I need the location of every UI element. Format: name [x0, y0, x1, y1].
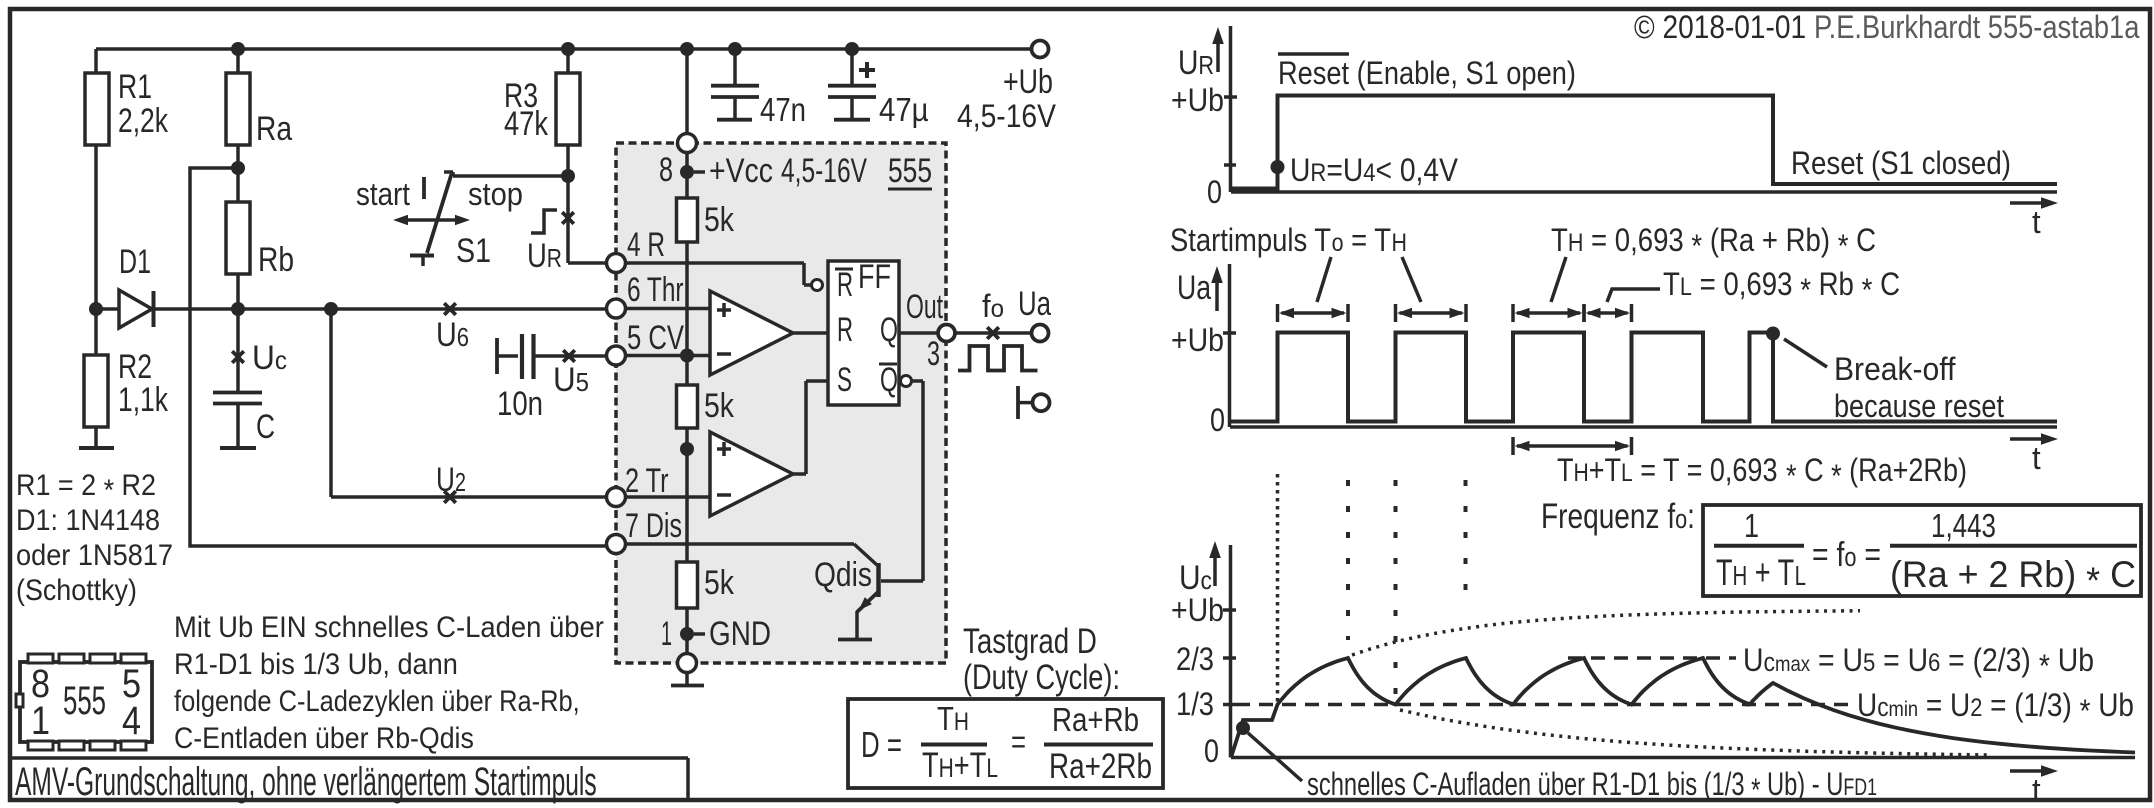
svg-text:2/3: 2/3	[1176, 642, 1214, 677]
svg-text:0: 0	[1207, 175, 1222, 211]
svg-text:TH = 0,693 * (Ra + Rb) * C: TH = 0,693 * (Ra + Rb) * C	[1551, 223, 1876, 264]
svg-text:5 CV: 5 CV	[627, 320, 684, 357]
svg-text:AMV-Grundschaltung, ohne verlä: AMV-Grundschaltung, ohne verlängertem St…	[15, 760, 597, 805]
svg-text:Rb: Rb	[258, 241, 294, 279]
svg-text:oder 1N5817: oder 1N5817	[16, 539, 173, 573]
svg-text:Ua: Ua	[1177, 269, 1211, 307]
svg-text:© 2018-01-01: © 2018-01-01	[1634, 10, 1806, 45]
svg-text:5k: 5k	[704, 201, 734, 239]
svg-text:Tastgrad D: Tastgrad D	[963, 621, 1097, 661]
svg-text:D =: D =	[861, 725, 902, 765]
svg-text:=: =	[1011, 724, 1026, 761]
svg-text:+Vcc: +Vcc	[709, 152, 773, 190]
svg-text:0: 0	[1210, 403, 1225, 439]
svg-text:5k: 5k	[704, 564, 734, 602]
svg-text:3: 3	[927, 336, 940, 373]
svg-text:555: 555	[63, 680, 106, 724]
svg-text:Ra+Rb: Ra+Rb	[1052, 702, 1139, 739]
svg-text:S: S	[837, 362, 852, 400]
svg-text:Ua: Ua	[1018, 286, 1051, 323]
svg-text:Qdis: Qdis	[814, 556, 872, 594]
svg-text:Out: Out	[906, 289, 943, 327]
svg-text:4 R: 4 R	[627, 226, 665, 264]
svg-text:t: t	[2032, 204, 2041, 241]
svg-text:R1 = 2 * R2: R1 = 2 * R2	[16, 469, 156, 508]
svg-text:TH: TH	[937, 701, 969, 738]
svg-text:7 Dis: 7 Dis	[625, 507, 682, 545]
svg-text:S1: S1	[456, 232, 491, 270]
svg-text:4,5-16V: 4,5-16V	[957, 99, 1056, 134]
svg-text:C-Entladen über Rb-Qdis: C-Entladen über Rb-Qdis	[174, 722, 474, 756]
svg-text:1,1k: 1,1k	[118, 381, 169, 419]
svg-text:TH+TL = T = 0,693 * C * (Ra+2R: TH+TL = T = 0,693 * C * (Ra+2Rb)	[1557, 453, 1967, 495]
svg-text:47n: 47n	[760, 92, 806, 129]
svg-text:2,2k: 2,2k	[118, 102, 169, 140]
svg-text:P.E.Burkhardt 555-astab1a: P.E.Burkhardt 555-astab1a	[1814, 10, 2140, 46]
svg-text:0: 0	[1204, 734, 1219, 770]
svg-text:47k: 47k	[504, 104, 549, 143]
svg-text:1,443: 1,443	[1931, 508, 1996, 545]
svg-text:2 Tr: 2 Tr	[625, 463, 669, 500]
svg-text:start: start	[356, 177, 411, 212]
svg-text:Ra: Ra	[256, 110, 293, 148]
svg-text:1: 1	[31, 697, 50, 742]
svg-text:10n: 10n	[497, 384, 543, 422]
svg-text:D1: D1	[119, 243, 151, 281]
svg-text:Reset (S1 closed): Reset (S1 closed)	[1791, 146, 2011, 181]
svg-text:+Ub: +Ub	[1171, 594, 1224, 629]
svg-text:+Ub: +Ub	[1171, 84, 1224, 119]
svg-text:because reset: because reset	[1834, 389, 2005, 425]
svg-text:U2: U2	[436, 462, 466, 499]
svg-text:C: C	[256, 408, 275, 446]
svg-text:R1-D1 bis 1/3 Ub, dann: R1-D1 bis 1/3 Ub, dann	[174, 648, 458, 682]
svg-text:4: 4	[122, 697, 141, 742]
svg-text:Reset (Enable, S1 open): Reset (Enable, S1 open)	[1278, 56, 1576, 92]
svg-text:(Schottky): (Schottky)	[16, 574, 137, 608]
svg-text:Frequenz fo:: Frequenz fo:	[1541, 496, 1695, 536]
svg-text:8: 8	[659, 151, 673, 189]
svg-text:+Ub: +Ub	[1003, 63, 1053, 101]
svg-text:5k: 5k	[704, 387, 734, 425]
svg-text:4,5-16V: 4,5-16V	[781, 152, 867, 190]
svg-text:555: 555	[888, 152, 932, 190]
svg-text:+Ub: +Ub	[1171, 324, 1224, 359]
svg-text:(Duty Cycle):: (Duty Cycle):	[963, 658, 1120, 697]
svg-text:stop: stop	[468, 177, 523, 213]
svg-text:R1: R1	[118, 68, 152, 106]
svg-text:FF: FF	[858, 257, 891, 296]
svg-text:Ra+2Rb: Ra+2Rb	[1049, 746, 1152, 786]
svg-text:TH + TL: TH + TL	[1716, 552, 1806, 593]
svg-text:Q: Q	[880, 312, 898, 349]
svg-text:Q: Q	[880, 362, 898, 399]
svg-text:GND: GND	[709, 614, 771, 652]
svg-text:R: R	[837, 311, 853, 349]
svg-text:TL = 0,693 * Rb * C: TL = 0,693 * Rb * C	[1663, 267, 1900, 308]
svg-text:folgende C-Ladezyklen über Ra-: folgende C-Ladezyklen über Ra-Rb,	[174, 684, 580, 717]
svg-text:t: t	[2032, 772, 2041, 808]
svg-text:1: 1	[661, 614, 672, 652]
svg-text:47µ: 47µ	[879, 91, 929, 128]
svg-text:1/3: 1/3	[1176, 687, 1214, 722]
svg-text:D1: 1N4148: D1: 1N4148	[16, 504, 160, 538]
svg-text:Startimpuls To = TH: Startimpuls To = TH	[1170, 223, 1407, 258]
svg-text:Break-off: Break-off	[1834, 351, 1956, 387]
svg-text:schnelles C-Aufladen über R1-D: schnelles C-Aufladen über R1-D1 bis (1/3…	[1307, 767, 1877, 808]
svg-text:t: t	[2032, 440, 2041, 477]
svg-text:UR=U4< 0,4V: UR=U4< 0,4V	[1290, 153, 1458, 188]
svg-text:R: R	[837, 266, 853, 304]
svg-text:(Ra + 2 Rb) * C: (Ra + 2 Rb) * C	[1890, 553, 2136, 601]
svg-text:1: 1	[1744, 509, 1759, 545]
svg-text:6 Thr: 6 Thr	[627, 271, 684, 309]
svg-text:Mit Ub EIN schnelles C-Laden ü: Mit Ub EIN schnelles C-Laden über	[174, 611, 604, 644]
